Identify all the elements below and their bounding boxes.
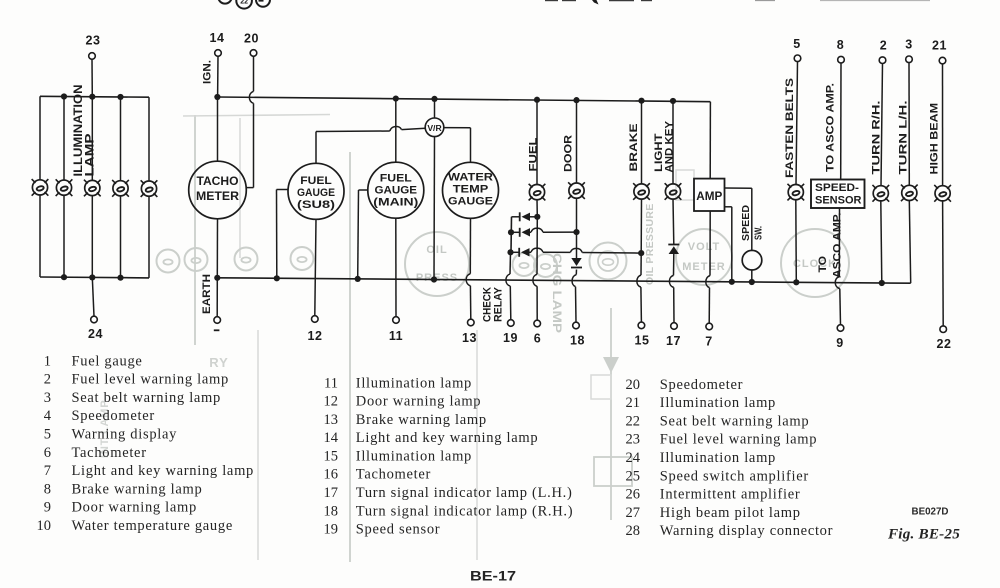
svg-text:6: 6: [44, 445, 51, 461]
svg-text:BRAKE: BRAKE: [628, 123, 640, 172]
svg-text:2: 2: [44, 372, 51, 388]
svg-text:24: 24: [88, 327, 103, 341]
svg-text:FUEL: FUEL: [380, 172, 412, 184]
svg-text:3: 3: [905, 38, 912, 52]
svg-text:CHG LAMP: CHG LAMP: [550, 253, 562, 333]
svg-text:Fuel gauge: Fuel gauge: [72, 353, 143, 369]
svg-text:Illumination lamp: Illumination lamp: [356, 375, 472, 391]
svg-text:5: 5: [44, 426, 51, 442]
svg-text:Fuel level warning lamp: Fuel level warning lamp: [660, 432, 817, 448]
svg-text:TEMP: TEMP: [453, 183, 489, 195]
svg-text:FUEL: FUEL: [528, 137, 540, 171]
svg-text:13: 13: [462, 331, 477, 345]
svg-text:Tachometer: Tachometer: [72, 445, 147, 461]
svg-text:Intermittent amplifier: Intermittent amplifier: [660, 487, 801, 503]
svg-text:11: 11: [324, 375, 338, 391]
svg-text:15: 15: [635, 334, 650, 348]
svg-text:OIL PRESSURE: OIL PRESSURE: [644, 203, 656, 285]
svg-text:BE027D: BE027D: [912, 507, 949, 518]
svg-text:ILLUMINATION: ILLUMINATION: [73, 85, 85, 177]
svg-text:19: 19: [324, 522, 339, 538]
svg-text:SPEED: SPEED: [741, 205, 752, 241]
svg-text:GAUGE: GAUGE: [297, 187, 335, 199]
svg-text:Tachometer: Tachometer: [356, 467, 431, 483]
svg-text:Door warning lamp: Door warning lamp: [72, 500, 197, 516]
svg-text:IGN.: IGN.: [201, 60, 213, 84]
svg-text:WATER: WATER: [448, 171, 493, 183]
svg-text:Illumination lamp: Illumination lamp: [660, 450, 776, 466]
svg-text:Light and key warning lamp: Light and key warning lamp: [356, 430, 539, 446]
svg-text:12: 12: [308, 329, 323, 343]
svg-text:Light and key warning lamp: Light and key warning lamp: [72, 463, 255, 479]
svg-text:19: 19: [503, 331, 518, 345]
svg-text:1: 1: [44, 353, 51, 369]
svg-text:Seat belt warning lamp: Seat belt warning lamp: [660, 413, 810, 429]
svg-text:Warning display: Warning display: [72, 426, 178, 442]
svg-text:ASCO AMP.: ASCO AMP.: [832, 213, 844, 279]
svg-text:5: 5: [793, 37, 800, 51]
svg-text:Illumination lamp: Illumination lamp: [660, 395, 776, 411]
svg-text:Speedometer: Speedometer: [72, 408, 155, 424]
svg-text:25: 25: [626, 468, 641, 484]
svg-text:Illumination lamp: Illumination lamp: [356, 448, 472, 464]
svg-text:BE-17: BE-17: [470, 568, 516, 584]
svg-text:20: 20: [626, 377, 641, 393]
svg-text:11: 11: [389, 329, 403, 343]
svg-text:Seat belt warning lamp: Seat belt warning lamp: [72, 390, 222, 406]
svg-text:TO: TO: [817, 256, 829, 273]
svg-text:SENSOR: SENSOR: [815, 194, 862, 206]
svg-text:Warning display connector: Warning display connector: [660, 523, 833, 539]
svg-text:Water temperature gauge: Water temperature gauge: [72, 518, 233, 534]
svg-text:GAUGE: GAUGE: [448, 195, 493, 207]
svg-text:TACHO: TACHO: [197, 174, 239, 188]
svg-text:(MAIN): (MAIN): [373, 196, 418, 208]
svg-text:18: 18: [324, 503, 339, 519]
svg-text:OIL: OIL: [426, 244, 447, 256]
svg-text:22: 22: [937, 337, 952, 351]
svg-text:27: 27: [626, 505, 641, 521]
svg-text:CLOCK: CLOCK: [793, 258, 837, 270]
svg-text:17: 17: [666, 334, 681, 348]
svg-text:26: 26: [626, 487, 641, 503]
svg-text:RY: RY: [209, 355, 229, 370]
svg-text:Brake warning lamp: Brake warning lamp: [356, 412, 487, 428]
svg-text:High beam pilot lamp: High beam pilot lamp: [660, 505, 801, 521]
svg-text:13: 13: [324, 412, 339, 428]
svg-text:(SU8): (SU8): [297, 199, 335, 211]
svg-text:10: 10: [37, 518, 52, 534]
svg-text:V/R: V/R: [427, 123, 442, 133]
svg-text:14: 14: [210, 31, 225, 45]
svg-text:20: 20: [244, 32, 259, 46]
svg-text:2: 2: [880, 39, 887, 53]
svg-text:24: 24: [626, 450, 641, 466]
svg-text:Door warning lamp: Door warning lamp: [356, 394, 481, 410]
svg-text:15: 15: [324, 448, 339, 464]
svg-text:21: 21: [626, 395, 641, 411]
svg-text:23: 23: [86, 34, 101, 48]
svg-text:Turn signal indicator lamp (L.: Turn signal indicator lamp (L.H.): [356, 485, 573, 501]
svg-text:23: 23: [626, 432, 641, 448]
svg-text:AND KEY: AND KEY: [664, 120, 676, 172]
svg-text:9: 9: [836, 336, 843, 350]
svg-text:28: 28: [626, 523, 641, 539]
svg-text:8: 8: [44, 481, 51, 497]
svg-text:Speedometer: Speedometer: [660, 377, 743, 393]
svg-text:7: 7: [705, 335, 712, 349]
svg-text:3: 3: [44, 390, 51, 406]
svg-text:Speed switch amplifier: Speed switch amplifier: [660, 468, 809, 484]
svg-text:SPEED-: SPEED-: [815, 182, 859, 194]
svg-text:Fig. BE-25: Fig. BE-25: [887, 526, 960, 543]
svg-text:VOLT: VOLT: [688, 241, 721, 253]
svg-text:DOOR: DOOR: [562, 135, 574, 172]
svg-text:SW.: SW.: [754, 226, 765, 240]
svg-text:18: 18: [570, 334, 585, 348]
svg-text:TO ASCO AMP.: TO ASCO AMP.: [825, 83, 837, 172]
svg-text:4: 4: [44, 408, 52, 424]
svg-text:FUEL: FUEL: [300, 175, 332, 187]
svg-text:8: 8: [837, 38, 844, 52]
svg-text:22: 22: [626, 413, 641, 429]
svg-text:TURN L/H.: TURN L/H.: [898, 101, 910, 175]
svg-text:Turn signal indicator lamp (R.: Turn signal indicator lamp (R.H.): [356, 503, 574, 519]
svg-text:RELAY: RELAY: [492, 286, 504, 322]
svg-text:9: 9: [44, 500, 51, 516]
svg-text:AMP: AMP: [696, 189, 722, 203]
svg-text:7: 7: [44, 463, 51, 479]
svg-text:HIGH BEAM: HIGH BEAM: [929, 103, 941, 175]
svg-text:Speed sensor: Speed sensor: [356, 522, 441, 538]
svg-text:17: 17: [324, 485, 339, 501]
svg-text:FASTEN BELTS: FASTEN BELTS: [784, 77, 796, 178]
svg-text:LAMP: LAMP: [85, 133, 97, 176]
svg-text:METER: METER: [196, 189, 239, 203]
svg-text:21: 21: [932, 39, 947, 53]
svg-text:GAUGE: GAUGE: [375, 184, 418, 196]
svg-text:Fuel level warning lamp: Fuel level warning lamp: [72, 372, 229, 388]
svg-text:Brake warning lamp: Brake warning lamp: [72, 481, 203, 497]
svg-text:PRESS: PRESS: [416, 272, 458, 284]
svg-text:METER: METER: [682, 261, 726, 273]
svg-text:14: 14: [324, 430, 339, 446]
svg-text:EARTH: EARTH: [201, 274, 213, 314]
svg-text:6: 6: [534, 332, 541, 346]
svg-text:12: 12: [324, 394, 339, 410]
svg-text:22: 22: [240, 0, 248, 6]
svg-text:16: 16: [324, 467, 339, 483]
svg-text:TURN R/H.: TURN R/H.: [870, 101, 882, 175]
